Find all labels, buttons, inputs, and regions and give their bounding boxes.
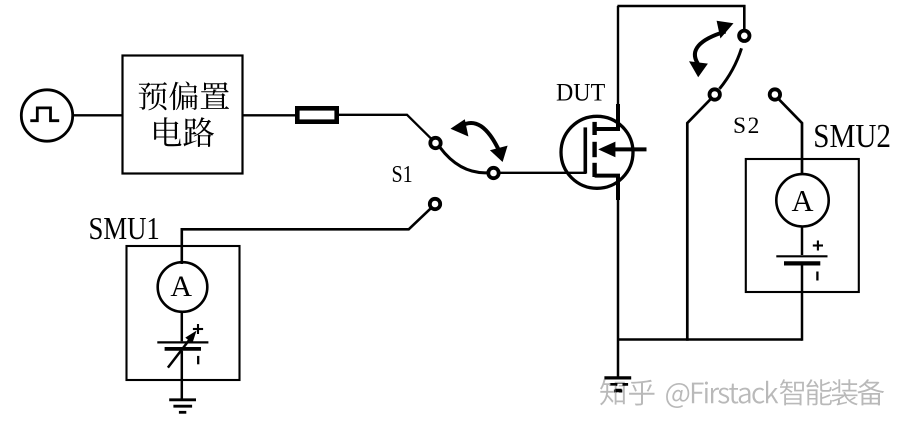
- SMU2 battery minus mark: [816, 272, 818, 281]
- svg-text:DUT: DUT: [556, 79, 605, 107]
- SMU2 wire battery to bottom rail: [801, 266, 804, 341]
- SMU2 wire A to battery: [801, 227, 804, 256]
- wire S1 to MOSFET gate: [500, 172, 586, 174]
- MOSFET drain lead wire: [617, 6, 619, 106]
- watermark white shadow: [602, 381, 886, 410]
- wire box to resistor R1: [243, 114, 298, 116]
- SMU1 wire A to source: [181, 313, 184, 342]
- ground main: [604, 378, 631, 391]
- SMU2 battery plus sign: [813, 241, 823, 251]
- S2 drop wire: [743, 5, 746, 29]
- svg-text:A: A: [791, 184, 813, 218]
- wire S1 lower contact to SMU1: [182, 208, 431, 264]
- switch S1 toggle arrow: [451, 119, 508, 162]
- resistor R1: [297, 108, 336, 121]
- svg-text:SMU2: SMU2: [813, 117, 891, 154]
- SMU1 source plus sign: [193, 324, 203, 334]
- wire resistor to switch S1: [337, 115, 432, 139]
- svg-text:S1: S1: [392, 160, 413, 187]
- ground SMU1: [169, 400, 196, 413]
- MOSFET gate bar: [583, 127, 587, 173]
- switch S1 lower contact: [430, 199, 440, 209]
- SMU1 box: [127, 246, 240, 380]
- bottom rail wire: [617, 338, 802, 341]
- pre-bias box label (Chinese): [139, 81, 229, 110]
- SMU1 variable source arrow line: [168, 337, 192, 368]
- switch S2 toggle arrow: [689, 21, 734, 77]
- svg-text:A: A: [170, 270, 192, 303]
- SMU2 ammeter A circle: [776, 174, 828, 226]
- SMU1 source minus mark: [197, 356, 199, 364]
- switch S1 top contact: [430, 138, 440, 148]
- MOSFET body line: [606, 147, 647, 151]
- ground bar fragments over watermark: [610, 383, 628, 392]
- svg-text:S2: S2: [733, 113, 761, 139]
- MOSFET source lead wire down: [617, 198, 620, 377]
- pre-bias circuit box: [123, 56, 243, 174]
- SMU2 battery plates: [776, 255, 827, 257]
- wire S2 right contact to SMU2: [779, 99, 802, 175]
- switch S2 blade: [720, 48, 742, 89]
- top rail wire: [617, 5, 745, 7]
- pulse source V1: [21, 90, 72, 141]
- svg-text:SMU1: SMU1: [89, 212, 160, 247]
- SMU1 wire source to ground: [181, 351, 184, 399]
- switch S1 right contact: [488, 168, 498, 178]
- SMU1 ammeter A circle: [158, 262, 208, 312]
- watermark gray text: [600, 379, 884, 408]
- switch S2 right contact: [770, 89, 780, 99]
- MOSFET DUT body circle: [561, 116, 633, 188]
- MOSFET drain link: [595, 104, 618, 129]
- MOSFET channel segments: [592, 122, 596, 177]
- SMU2 box: [746, 159, 859, 292]
- switch S2 left contact: [710, 89, 720, 99]
- SMU1 variable source arrowhead: [185, 331, 196, 344]
- switch S2 top contact: [739, 31, 749, 41]
- wire pulse source to pre-bias box: [73, 114, 122, 116]
- SMU1 variable source plates: [157, 341, 208, 343]
- MOSFET source link: [595, 176, 618, 200]
- MOSFET body arrowhead: [598, 142, 615, 158]
- switch S1 blade: [440, 147, 487, 173]
- wire S2 left contact down: [687, 99, 711, 341]
